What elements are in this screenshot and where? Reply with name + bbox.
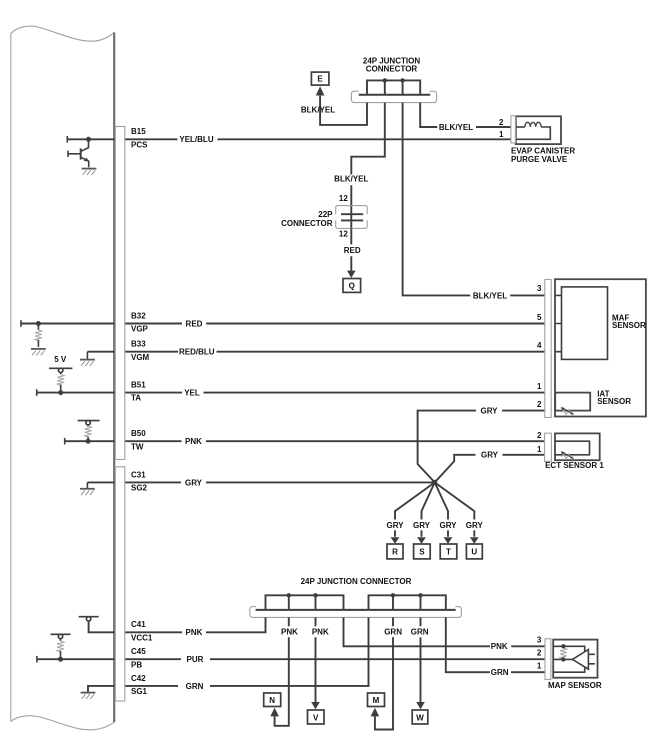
transistor Q (PCS driver) collector lead <box>81 139 88 151</box>
svg-text:PNK: PNK <box>186 628 203 637</box>
IAT thermistor <box>561 407 574 415</box>
svg-text:M: M <box>373 696 380 705</box>
wire B50 TW PNK to ECT sensor pin 2 <box>65 440 546 442</box>
tick C45 wire left end <box>36 656 38 663</box>
svg-text:V: V <box>313 713 319 722</box>
svg-text:SG2: SG2 <box>131 484 148 493</box>
pull-up resistor TA <box>57 374 64 385</box>
svg-text:TA: TA <box>131 394 141 403</box>
svg-text:YEL: YEL <box>184 389 200 398</box>
svg-text:RED/BLU: RED/BLU <box>179 348 215 357</box>
terminal Q box <box>343 279 361 293</box>
5V supply node for VCC1 <box>79 616 99 618</box>
MAP sensor box <box>553 640 597 678</box>
MAP internal bottom wire <box>553 667 585 672</box>
transistor base lead <box>68 153 81 155</box>
bottom junction left bus <box>266 595 344 610</box>
wire junction pin2 down to 22P connector <box>351 103 385 229</box>
svg-text:SENSOR: SENSOR <box>597 397 631 406</box>
svg-text:PB: PB <box>131 660 142 669</box>
arrowheads into R S T U <box>391 537 400 544</box>
svg-text:5 V: 5 V <box>54 355 67 364</box>
svg-text:VGP: VGP <box>131 325 149 334</box>
wire B15 PCS YEL/BLU to EVAP pin 1 <box>67 138 511 140</box>
wire junction pin to terminal V <box>315 617 317 702</box>
svg-text:PNK: PNK <box>185 437 202 446</box>
svg-text:CONNECTOR: CONNECTOR <box>281 219 333 228</box>
pull-up resistor TW <box>85 426 92 437</box>
svg-text:GRY: GRY <box>481 451 499 460</box>
tick B15 wire left end <box>66 136 68 143</box>
ground at B33 <box>86 352 88 360</box>
ECT sensor box <box>555 433 600 460</box>
svg-text:GRN: GRN <box>384 627 402 636</box>
ECT internal loop <box>555 441 590 455</box>
svg-text:U: U <box>471 548 477 557</box>
tick transistor base left end <box>67 151 69 157</box>
svg-text:CONNECTOR: CONNECTOR <box>366 64 418 73</box>
junction dot bus pin 2 <box>383 78 387 82</box>
wire junction pin GRN to C42 SG1 <box>88 617 369 692</box>
splice fan wire to terminal T <box>435 482 448 536</box>
junction dot TA pull-up <box>58 390 63 395</box>
wire junction pin4 BLK/YEL to EVAP pin 2 <box>420 103 511 127</box>
wire C31 SG2 GRY to splice <box>87 481 434 483</box>
svg-text:GRY: GRY <box>480 407 498 416</box>
svg-text:BLK/YEL: BLK/YEL <box>334 174 368 183</box>
svg-text:GRN: GRN <box>411 627 429 636</box>
svg-text:PCS: PCS <box>131 140 148 149</box>
transistor emitter lead <box>81 157 89 167</box>
EVAP solenoid coil <box>516 126 525 128</box>
svg-text:W: W <box>416 713 424 722</box>
splice junction dot (GRY common) <box>432 480 437 485</box>
wire junction pin GRN to MAP pin 1 <box>446 617 547 672</box>
splice fan wire to terminal U <box>435 482 475 536</box>
svg-text:C42: C42 <box>131 674 146 683</box>
svg-text:BLK/YEL: BLK/YEL <box>473 291 507 300</box>
ground below transistor <box>82 169 97 175</box>
svg-text:24P JUNCTION CONNECTOR: 24P JUNCTION CONNECTOR <box>301 577 412 586</box>
svg-text:22P: 22P <box>318 210 333 219</box>
wire ECT pin 1 GRY to splice <box>435 455 546 483</box>
ECM/PCM band left edge <box>10 34 12 722</box>
svg-text:5: 5 <box>537 313 542 322</box>
arrowhead into terminal M <box>371 708 380 717</box>
wire C45 PB PUR to MAP pin 2 <box>37 658 547 660</box>
svg-text:1: 1 <box>499 130 504 139</box>
tick B51 wire left end <box>36 389 38 396</box>
svg-text:1: 1 <box>537 382 542 391</box>
MAP sensor bracket <box>545 639 551 680</box>
svg-text:C41: C41 <box>131 620 146 629</box>
svg-text:E: E <box>317 75 323 84</box>
terminal T box <box>440 544 457 559</box>
svg-text:GRN: GRN <box>491 668 509 677</box>
svg-text:GRY: GRY <box>386 521 404 530</box>
svg-text:R: R <box>392 548 398 557</box>
svg-text:SENSOR: SENSOR <box>612 321 646 330</box>
bottom junction bus bar <box>256 609 456 611</box>
bottom junction right bus <box>369 595 446 610</box>
svg-text:PURGE VALVE: PURGE VALVE <box>511 155 568 164</box>
svg-text:PUR: PUR <box>187 655 204 664</box>
MAP amplifier triangle <box>572 650 588 670</box>
wire junction pin3 BLK/YEL to MAF pin 3 <box>403 103 547 296</box>
svg-text:ECT SENSOR 1: ECT SENSOR 1 <box>545 461 604 470</box>
wire 22P to terminal Q <box>350 228 352 271</box>
svg-text:TW: TW <box>131 442 144 451</box>
transistor base bar <box>80 148 82 159</box>
junction dot bus pin 3 <box>400 78 404 82</box>
svg-text:S: S <box>419 548 425 557</box>
svg-text:SG1: SG1 <box>131 687 148 696</box>
wire B32 VGP RED to MAF pin 5 <box>21 323 547 325</box>
svg-text:GRY: GRY <box>466 521 484 530</box>
svg-text:B32: B32 <box>131 311 146 320</box>
MAP internal mid wire <box>553 658 573 660</box>
terminal E box <box>311 72 329 85</box>
MAF internal pin stubs <box>555 295 561 351</box>
svg-text:Q: Q <box>349 282 355 291</box>
svg-text:B15: B15 <box>131 127 146 136</box>
svg-text:PNK: PNK <box>312 627 329 636</box>
terminal W box <box>412 710 428 724</box>
wire junction pin PNK to MAP pin 3 <box>344 617 547 646</box>
svg-text:N: N <box>269 696 275 705</box>
pull-up resistor PB <box>57 641 64 652</box>
terminal V box <box>308 710 325 724</box>
svg-text:VGM: VGM <box>131 353 150 362</box>
arrowhead into terminal N <box>270 708 279 717</box>
svg-text:MAP SENSOR: MAP SENSOR <box>548 681 602 690</box>
ground at C42 <box>81 693 96 699</box>
svg-text:VCC1: VCC1 <box>131 633 153 642</box>
arrowhead into terminal E <box>316 86 325 95</box>
top junction bus <box>367 80 420 94</box>
ECM/PCM band top wavy edge <box>11 26 114 41</box>
svg-text:12: 12 <box>339 229 348 238</box>
MAP internal resistor <box>560 648 567 659</box>
svg-text:B51: B51 <box>131 381 146 390</box>
EVAP canister purge valve box <box>516 116 561 144</box>
22P connector lower staple <box>336 220 368 228</box>
ECM/PCM band right edge <box>113 32 115 722</box>
svg-text:B50: B50 <box>131 429 146 438</box>
junction dots right bus <box>391 593 395 597</box>
IAT sensor box <box>555 393 590 411</box>
junction dot TW pull-up <box>86 439 91 444</box>
svg-text:PNK: PNK <box>491 642 508 651</box>
svg-text:2: 2 <box>537 400 542 409</box>
junction dots left bus <box>287 593 291 597</box>
MAP amplifier stubs <box>588 654 595 664</box>
arrowhead into terminal W <box>416 702 425 709</box>
svg-text:GRY: GRY <box>413 521 431 530</box>
tick B32 wire left end <box>20 320 22 327</box>
splice fan wire to terminal S <box>422 482 435 536</box>
top junction bus bar <box>359 94 430 96</box>
svg-text:RED: RED <box>344 246 361 255</box>
connector bracket column B (B15..B50) <box>115 127 125 460</box>
tick B50 wire left end <box>64 438 66 445</box>
wire junction pin to terminal W <box>420 617 422 702</box>
svg-text:12: 12 <box>339 194 348 203</box>
ground below B32 resistor <box>31 349 46 355</box>
terminal M box <box>368 693 385 707</box>
bottom junction connector tray <box>250 607 462 618</box>
5V pull-up node for TW <box>78 420 100 422</box>
junction dot B15 <box>86 137 91 142</box>
svg-text:T: T <box>446 548 451 557</box>
wire B33 VGM RED/BLU to MAF pin 4 <box>87 351 546 353</box>
22P connector terminal lines <box>341 214 363 220</box>
wire junction pin to terminal N <box>275 617 289 725</box>
transistor emitter arrowhead <box>84 158 89 162</box>
svg-text:C45: C45 <box>131 647 146 656</box>
ECT thermistor <box>561 451 574 459</box>
svg-text:3: 3 <box>537 284 542 293</box>
svg-text:4: 4 <box>537 341 542 350</box>
splice fan wire to terminal R <box>395 482 435 536</box>
pull-down resistor B32 <box>37 324 39 330</box>
22P connector upper staple <box>336 206 368 215</box>
MAF sensor inner element box <box>562 287 608 360</box>
MAF sensor connector bracket <box>545 280 551 418</box>
svg-text:1: 1 <box>537 662 542 671</box>
svg-text:GRN: GRN <box>186 682 204 691</box>
arrowhead into terminal V <box>311 702 320 709</box>
svg-text:2: 2 <box>537 649 542 658</box>
svg-text:YEL/BLU: YEL/BLU <box>179 135 213 144</box>
svg-text:GRY: GRY <box>439 521 457 530</box>
top junction connector tray <box>351 91 436 102</box>
wire junction to C41 VCC1 PNK <box>89 617 266 632</box>
wire MAF pin 2 GRY to splice <box>418 411 547 483</box>
arrowhead into terminal Q <box>347 271 356 278</box>
terminal S box <box>414 544 431 559</box>
svg-text:3: 3 <box>537 635 542 644</box>
5V pull-up node for PB <box>51 633 71 635</box>
wire junction pin1 to terminal E <box>320 96 367 125</box>
terminal N box <box>264 693 281 707</box>
svg-text:BLK/YEL: BLK/YEL <box>439 123 473 132</box>
ground at C31 <box>86 482 88 488</box>
svg-text:GRY: GRY <box>185 478 203 487</box>
EVAP connector bracket <box>511 116 516 143</box>
svg-text:2: 2 <box>537 431 542 440</box>
MAP internal top wire <box>553 646 585 651</box>
connector bracket column C (C31..C42) <box>115 467 125 701</box>
svg-text:2: 2 <box>499 118 504 127</box>
svg-text:B33: B33 <box>131 340 146 349</box>
wire junction pin to terminal M <box>375 617 393 729</box>
ECM/PCM band bottom wavy edge <box>11 716 114 730</box>
svg-text:RED: RED <box>186 319 203 328</box>
terminal R box <box>387 544 403 559</box>
terminal U box <box>466 544 482 559</box>
svg-text:BLK/YEL: BLK/YEL <box>301 106 335 115</box>
junction dot B32 <box>36 321 41 326</box>
junction dot PB pull-up <box>58 657 63 662</box>
svg-text:1: 1 <box>537 445 542 454</box>
svg-text:C31: C31 <box>131 470 146 479</box>
wire B51 TA YEL to MAF pin 1 <box>37 392 547 394</box>
ECT sensor bracket <box>545 433 552 461</box>
MAF sensor outer box <box>555 279 646 416</box>
svg-text:PNK: PNK <box>281 627 298 636</box>
